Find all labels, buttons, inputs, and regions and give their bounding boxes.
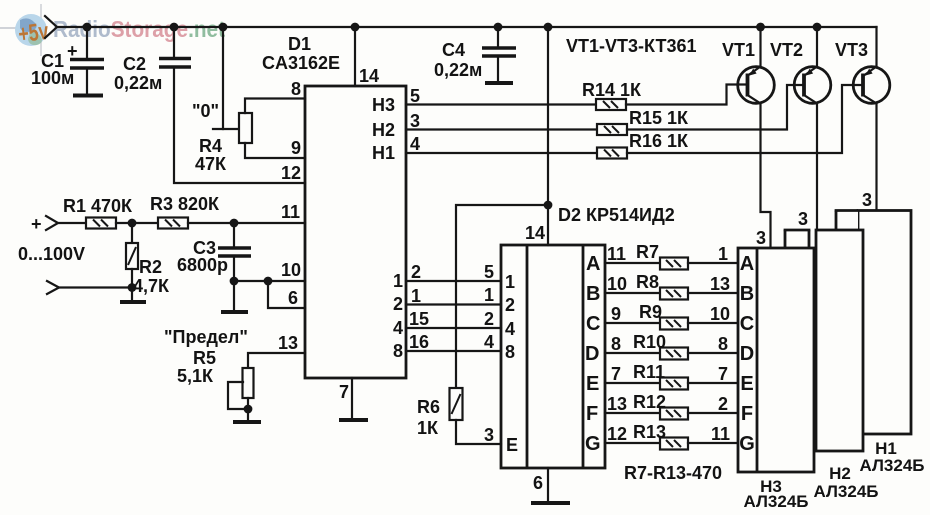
svg-text:6800р: 6800р [177, 255, 228, 275]
transistor Q3 VT3 [835, 27, 890, 104]
wire pin 7 D1 to ground [339, 378, 352, 420]
resistor R1 470K [63, 196, 133, 229]
svg-text:VT1-VT3-КТ361: VT1-VT3-КТ361 [566, 36, 696, 56]
node junction R1/R2/R3 [128, 219, 137, 228]
pin numbers D1 right [409, 86, 429, 352]
svg-text:14: 14 [525, 223, 545, 243]
svg-text:12: 12 [281, 163, 301, 183]
svg-text:4,7К: 4,7К [133, 276, 170, 296]
svg-text:АЛ324Б: АЛ324Б [814, 482, 879, 501]
svg-text:8: 8 [611, 334, 621, 354]
svg-text:E: E [506, 435, 518, 455]
wire D1 pin 15 to D2 pin 2 [406, 327, 501, 329]
wire D2 D row + resistor R10 [605, 332, 738, 360]
svg-text:D1: D1 [288, 34, 311, 54]
display H3 AL324B body [738, 228, 814, 472]
pin labels D2 inside right A-G [585, 253, 601, 455]
wire branch to R6 [456, 205, 548, 388]
ground (R5) [233, 420, 261, 424]
svg-text:R3 820К: R3 820К [150, 194, 220, 214]
svg-text:H3: H3 [372, 95, 395, 115]
transistor Q1 VT1 [722, 27, 774, 104]
text VT1-VT3 type [566, 36, 696, 56]
svg-text:4: 4 [410, 134, 420, 154]
wire +5V rail [57, 26, 877, 28]
svg-text:R13: R13 [633, 422, 666, 442]
svg-text:1: 1 [718, 244, 728, 264]
svg-text:VT2: VT2 [770, 40, 803, 60]
svg-text:1: 1 [505, 272, 515, 292]
wire D2 E row + resistor R11 [605, 362, 738, 390]
svg-text:1К: 1К [417, 418, 439, 438]
capacitor C3 6800p [177, 223, 251, 312]
svg-text:13: 13 [607, 394, 627, 414]
svg-text:1: 1 [393, 271, 403, 291]
svg-text:R1 470К: R1 470К [63, 196, 133, 216]
watermark [0, 4, 225, 56]
svg-text:0,22м: 0,22м [114, 73, 162, 93]
svg-text:+: + [67, 41, 78, 61]
svg-text:3: 3 [756, 228, 766, 248]
resistor R2 4,7K [126, 223, 170, 302]
svg-text:11: 11 [281, 202, 300, 222]
pin labels D1 inside right [372, 95, 403, 361]
capacitor C1 [31, 27, 104, 95]
svg-text:2: 2 [718, 394, 728, 414]
display H1 AL324B body [835, 190, 911, 434]
svg-text:E: E [586, 373, 599, 395]
svg-text:R12: R12 [633, 392, 666, 412]
ground (R2) [120, 300, 146, 304]
wire D1 pin 1 to D2 pin 1 [406, 303, 501, 305]
wire C2 bottom to pin 12 [174, 67, 305, 183]
svg-text:R7-R13-470: R7-R13-470 [624, 463, 722, 483]
text Predel [164, 327, 248, 347]
svg-text:6: 6 [533, 473, 543, 493]
svg-text:R11: R11 [633, 362, 665, 382]
transistor Q2 VT2 [770, 27, 831, 104]
text H2 label [814, 464, 879, 501]
svg-text:5: 5 [484, 262, 494, 282]
svg-text:3: 3 [862, 190, 872, 210]
svg-text:H1: H1 [372, 143, 395, 163]
wire D1 pin 3 row (H2) [406, 128, 597, 130]
wire D2 A row + resistor R7 [605, 242, 738, 270]
svg-text:H2: H2 [829, 464, 851, 483]
svg-text:R4: R4 [199, 136, 222, 156]
svg-text:3: 3 [410, 111, 420, 131]
wire R4 bottom to pin 9 [245, 143, 305, 158]
resistor R3 820K [150, 194, 220, 229]
svg-text:"0": "0" [192, 101, 219, 121]
svg-text:C: C [740, 313, 754, 335]
svg-text:8: 8 [718, 334, 728, 354]
resistor R6 1K [417, 388, 463, 438]
wire D2 F row + resistor R12 [605, 392, 738, 420]
svg-text:5,1К: 5,1К [177, 366, 214, 386]
svg-text:11: 11 [607, 244, 626, 264]
svg-text:15: 15 [409, 309, 429, 329]
svg-text:2: 2 [505, 295, 515, 315]
svg-text:0,22м: 0,22м [434, 60, 482, 80]
resistor R14 1K [582, 80, 642, 110]
svg-text:"Предел": "Предел" [164, 327, 248, 347]
svg-text:8: 8 [393, 341, 403, 361]
svg-text:A: A [740, 253, 754, 275]
svg-text:VT3: VT3 [835, 40, 868, 60]
svg-text:F: F [586, 403, 598, 425]
wire R3 to pin 11 [188, 222, 305, 224]
resistor R15 1K [597, 108, 689, 135]
pin labels D1 left [278, 79, 301, 353]
svg-text:16: 16 [409, 332, 429, 352]
svg-text:B: B [586, 283, 600, 305]
svg-text:11: 11 [711, 424, 730, 444]
svg-text:+: + [31, 214, 42, 234]
svg-text:C: C [586, 313, 600, 335]
wire D2 B row + resistor R8 [605, 272, 738, 300]
svg-text:8: 8 [291, 79, 301, 99]
svg-text:D: D [585, 343, 599, 365]
wire D2 C row + resistor R9 [605, 302, 738, 330]
node - input arrow [47, 281, 136, 294]
wire VT2 collector to H2 pin 3 [816, 104, 818, 232]
svg-text:RadioStorage.net: RadioStorage.net [53, 16, 225, 42]
ground (C4) [485, 81, 513, 85]
svg-text:13: 13 [278, 333, 298, 353]
op-amp U1 : ADC chip D1 CA3162E body [262, 34, 406, 378]
wire to pin 6 [268, 281, 305, 308]
svg-text:R10: R10 [633, 332, 666, 352]
wire R1 to R3 [116, 222, 158, 224]
wire D1 pin 16 to D2 pin 4 [406, 350, 501, 352]
svg-text:D: D [740, 343, 754, 365]
node rail junction dots [83, 23, 822, 32]
ground (pin 7) [339, 418, 368, 422]
svg-text:47К: 47К [195, 154, 227, 174]
svg-text:100м: 100м [31, 68, 74, 88]
wire D1 pin 4 row (H1) [406, 152, 597, 154]
text H1 label [860, 439, 925, 475]
svg-text:9: 9 [291, 138, 301, 158]
resistor R4 47K trimmer [195, 113, 252, 174]
pin labels H3 segments [739, 253, 755, 455]
svg-text:C4: C4 [442, 40, 465, 60]
wire D2 G row + resistor R13 [605, 422, 738, 450]
wire VT1 collector to H3 pin 3 [761, 104, 771, 250]
svg-text:R6: R6 [417, 397, 440, 417]
svg-text:9: 9 [611, 304, 621, 324]
svg-text:F: F [741, 403, 753, 425]
svg-text:2: 2 [484, 309, 494, 329]
capacitor C2 [114, 27, 191, 93]
text H3 label [744, 477, 809, 511]
svg-text:G: G [739, 433, 755, 455]
svg-text:R8: R8 [636, 272, 659, 292]
wire R16 to VT3 base [627, 85, 863, 153]
svg-text:R7: R7 [636, 242, 659, 262]
text 0...100V [18, 244, 85, 264]
ground (C1) [73, 94, 103, 98]
wire pin 14 D1 [355, 27, 379, 86]
svg-text:R5: R5 [193, 348, 216, 368]
wire R4 top to pin 8 [245, 99, 305, 114]
svg-text:+5v: +5v [17, 18, 51, 49]
svg-text:B: B [740, 283, 754, 305]
svg-text:R14 1К: R14 1К [582, 80, 642, 100]
wire D1 pin 2 to D2 pin 5 [406, 280, 501, 282]
wire R6 to D2 pin 3 (E) [456, 420, 501, 445]
wire R14 to VT1 base [626, 85, 748, 105]
ground (D2 pin 6) [531, 501, 570, 505]
svg-text:13: 13 [710, 274, 730, 294]
svg-text:0...100V: 0...100V [18, 244, 85, 264]
svg-text:R15 1К: R15 1К [629, 108, 689, 128]
svg-text:R16 1К: R16 1К [629, 131, 689, 151]
wire C3 to pin 10 [234, 277, 305, 286]
svg-text:H2: H2 [372, 120, 395, 140]
svg-text:R9: R9 [639, 302, 662, 322]
+5V input arrow [45, 16, 57, 38]
svg-text:3: 3 [484, 425, 494, 445]
capacitor C4 [434, 27, 516, 83]
wire D1 pin 5 row (H3) [406, 103, 596, 105]
svg-text:10: 10 [710, 304, 730, 324]
wire R15 to VT2 base [627, 85, 804, 130]
svg-text:C2: C2 [123, 54, 146, 74]
svg-text:14: 14 [359, 66, 379, 86]
svg-text:G: G [585, 433, 601, 455]
text R7-R13 value [624, 463, 722, 483]
node "0" adjust wire [192, 27, 223, 129]
svg-text:2: 2 [393, 294, 403, 314]
wire VT3 collector to H1 pin 3 [875, 104, 877, 212]
pin numbers D2 left [484, 262, 494, 352]
svg-text:7: 7 [611, 364, 621, 384]
svg-text:4: 4 [505, 319, 515, 339]
svg-text:12: 12 [607, 424, 627, 444]
IC D2 KR514ID2 body [501, 205, 675, 468]
node junction R3/C3/pin11 [230, 219, 239, 228]
svg-text:7: 7 [718, 364, 728, 384]
node + input arrow [31, 214, 86, 234]
svg-text:CA3162E: CA3162E [262, 53, 340, 73]
svg-text:6: 6 [288, 288, 298, 308]
svg-text:4: 4 [484, 332, 494, 352]
svg-text:VT1: VT1 [722, 40, 755, 60]
svg-text:1: 1 [484, 285, 494, 305]
svg-text:АЛ324Б: АЛ324Б [744, 492, 809, 511]
svg-text:R2: R2 [139, 257, 162, 277]
svg-text:A: A [586, 253, 600, 275]
resistor R16 1K [597, 131, 689, 159]
svg-text:8: 8 [505, 342, 515, 362]
svg-text:АЛ324Б: АЛ324Б [860, 456, 925, 475]
svg-text:D2 КР514ИД2: D2 КР514ИД2 [558, 205, 675, 225]
svg-text:10: 10 [607, 274, 627, 294]
pin labels D2 inside left [505, 272, 518, 455]
svg-text:5: 5 [410, 86, 420, 106]
ground (C3) [221, 310, 248, 314]
wire pin 6 D2 to ground [533, 468, 548, 503]
wire +5V drop to D2 pin 14 [525, 27, 552, 245]
svg-text:7: 7 [339, 382, 349, 402]
svg-text:3: 3 [798, 209, 808, 229]
svg-text:2: 2 [411, 262, 421, 282]
display H2 AL324B body [784, 209, 863, 451]
svg-text:4: 4 [393, 318, 403, 338]
svg-text:1: 1 [411, 286, 421, 306]
svg-text:E: E [740, 373, 753, 395]
resistor R5 5,1K trimmer [177, 348, 305, 422]
svg-text:10: 10 [281, 260, 301, 280]
